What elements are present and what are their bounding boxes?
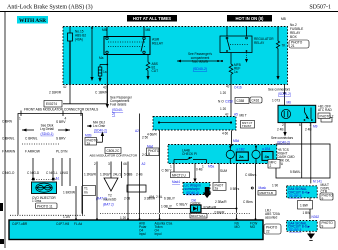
svg-text:Ma: Ma xyxy=(99,56,104,60)
svg-text:1 20: 1 20 xyxy=(220,107,226,111)
wire switch to note xyxy=(194,164,196,179)
svg-text:fuse details: fuse details xyxy=(192,60,209,64)
svg-text:RELAY: RELAY xyxy=(254,41,265,45)
svg-text:CHECK PI: CHECK PI xyxy=(182,152,197,156)
svg-text:Inpul: Inpul xyxy=(155,232,162,236)
circuit breaker No.15 xyxy=(68,30,87,42)
off-page fat arrow xyxy=(203,187,212,198)
outside-left wire labels xyxy=(2,120,16,176)
strip label box xyxy=(241,121,255,129)
svg-text:A2: A2 xyxy=(135,129,139,133)
resistor feed to modulator xyxy=(229,53,241,85)
svg-text:0 5Brs: 0 5Brs xyxy=(230,187,240,191)
svg-text:See connectors: See connectors xyxy=(271,136,294,140)
data link box label xyxy=(320,221,335,229)
svg-text:(40A): (40A) xyxy=(75,38,83,42)
svg-text:C416: C416 xyxy=(252,99,260,103)
band terminal labels xyxy=(12,222,257,237)
svg-text:MB: MB xyxy=(281,17,286,21)
pump motor relay coil xyxy=(281,109,290,118)
svg-text:M9: M9 xyxy=(313,125,318,129)
svg-text:4 6B/R: 4 6B/R xyxy=(147,133,157,137)
svg-text:SD507-1: SD507-1 xyxy=(309,5,331,11)
svg-text:1a: 1a xyxy=(234,70,238,74)
ASR relay xyxy=(104,37,164,55)
connector label box C416 xyxy=(250,97,262,103)
wire pin1 column to band xyxy=(94,114,146,221)
internal dotted wire xyxy=(22,143,60,145)
svg-text:C 6Bsrs: C 6Bsrs xyxy=(245,173,257,177)
modulator top pins xyxy=(19,111,81,121)
svg-text:4a: 4a xyxy=(265,154,270,159)
binder mark upper xyxy=(0,203,3,211)
svg-text:N O: N O xyxy=(218,100,224,104)
svg-text:assorted: assorted xyxy=(265,216,277,220)
WITH ASR label xyxy=(17,16,48,24)
cross ref note above strip xyxy=(110,96,133,117)
svg-text:C NIG-O: C NIG-O xyxy=(2,171,15,175)
solenoid band label xyxy=(182,149,197,157)
photo box center xyxy=(85,134,98,146)
svg-text:Lrc Orsir: Lrc Orsir xyxy=(93,124,106,128)
wire pin4 down xyxy=(121,166,123,178)
svg-text:HOT AT ALL TIMES: HOT AT ALL TIMES xyxy=(133,16,171,21)
svg-text:C BRN: C BRN xyxy=(2,120,13,124)
band entry pin dots xyxy=(75,218,256,220)
svg-text:1 90: 1 90 xyxy=(272,184,278,188)
svg-text:2 08: 2 08 xyxy=(124,197,130,201)
relay output label xyxy=(152,62,159,73)
data link circuit box xyxy=(287,221,318,233)
svg-text:1 2KB/T: 1 2KB/T xyxy=(100,173,112,177)
svg-text:4J: 4J xyxy=(103,86,107,90)
svg-text:E00274: E00274 xyxy=(46,102,57,106)
svg-text:PHOTO 2: PHOTO 2 xyxy=(320,114,334,118)
svg-text:2: 2 xyxy=(270,164,272,168)
wire pump motor relay pin6 down xyxy=(301,123,303,178)
connector note right xyxy=(251,186,276,195)
wire color labels row xyxy=(84,173,143,177)
label box left of wires xyxy=(213,183,226,191)
svg-text:C 1BR/R: C 1BR/R xyxy=(95,91,108,95)
svg-text:1 2/0: 1 2/0 xyxy=(63,215,70,219)
svg-text:A1: A1 xyxy=(56,177,60,181)
svg-text:(SD40-2): (SD40-2) xyxy=(94,129,107,133)
wire from ASR relay switch down xyxy=(147,55,149,63)
svg-text:MFATT2A-L: MFATT2A-L xyxy=(191,214,206,218)
svg-text:FRONT ABS MODULATOR CONNECTOR: FRONT ABS MODULATOR CONNECTOR DETAILS xyxy=(24,107,98,111)
svg-text:4J: 4J xyxy=(63,85,67,89)
svg-text:2: 2 xyxy=(94,162,96,166)
highlighted cross-ref note xyxy=(183,183,210,195)
wire to other page (arrow) xyxy=(271,123,294,145)
svg-text:C805-2C: C805-2C xyxy=(107,149,120,153)
interconnect wire with end arrows xyxy=(177,60,223,63)
wire pump motor relay pin3 down xyxy=(310,123,312,184)
svg-text:3: 3 xyxy=(108,162,110,166)
title rule xyxy=(0,11,338,13)
wire from fuse box to pump motor relay xyxy=(268,85,291,106)
svg-text:N362: N362 xyxy=(312,215,320,219)
svg-text:S BRV: S BRV xyxy=(56,137,66,141)
svg-text:2): 2) xyxy=(112,112,115,116)
svg-text:21: 21 xyxy=(291,44,295,48)
wire from ASR relay pin to 4J xyxy=(106,55,108,85)
wire solenoid A down to band xyxy=(220,164,240,221)
svg-text:C NIG-D: C NIG-D xyxy=(27,171,40,175)
modulator-control unit box xyxy=(10,114,250,216)
svg-text:Lrg Detail: Lrg Detail xyxy=(40,127,54,131)
svg-text:Mad4: Mad4 xyxy=(172,180,180,184)
solenoid coil A xyxy=(226,145,248,164)
svg-text:C358: C358 xyxy=(237,99,245,103)
svg-text:B: B xyxy=(148,152,150,156)
under-hood fuse/relay box xyxy=(63,27,288,85)
svg-text:9: 9 xyxy=(322,197,324,201)
page left border xyxy=(4,12,6,249)
internal cross-ref arrows xyxy=(22,124,70,136)
svg-text:A2: A2 xyxy=(142,162,146,166)
svg-text:C BRN/L: C BRN/L xyxy=(2,137,15,141)
svg-text:C NIG-L: C NIG-L xyxy=(46,171,58,175)
wire to label box xyxy=(218,164,220,183)
svg-text:C BRN/L: C BRN/L xyxy=(25,137,38,141)
svg-text:2a: 2a xyxy=(215,187,219,191)
svg-text:PHOTO 11: PHOTO 11 xyxy=(37,204,53,208)
connector label box E00274 xyxy=(44,101,62,108)
svg-text:2 1BR/R: 2 1BR/R xyxy=(49,91,62,95)
svg-text:1 BW: 1 BW xyxy=(303,211,311,215)
svg-text:MO: MO xyxy=(235,225,241,229)
wire from breaker to connector 4J xyxy=(69,41,71,85)
svg-text:C416: C416 xyxy=(234,86,242,90)
photo label near band xyxy=(147,144,160,156)
svg-text:Mad: Mad xyxy=(147,144,153,148)
wire pin6 down to band xyxy=(127,166,129,220)
indicator box label xyxy=(320,183,333,201)
svg-text:F ARW/N: F ARW/N xyxy=(2,150,16,154)
svg-text:Anti-Lock Brake System (ABS) (: Anti-Lock Brake System (ABS) (3) xyxy=(7,4,93,11)
svg-text:3 380/A: 3 380/A xyxy=(144,197,156,201)
inner loop box bottom center xyxy=(127,185,146,192)
svg-text:MFATT2-B: MFATT2-B xyxy=(260,191,273,195)
svg-text:0 4B: 0 4B xyxy=(196,167,203,171)
svg-text:C4P7-H8: C4P7-H8 xyxy=(56,222,69,226)
svg-text:2 4B: 2 4B xyxy=(136,173,143,177)
hot-at-all-times header 2 xyxy=(227,15,286,22)
wires to ground right of pump xyxy=(63,186,82,220)
svg-text:2: 2 xyxy=(282,123,284,127)
wire band left down with turn xyxy=(147,133,174,173)
svg-text:2 4B: 2 4B xyxy=(277,128,284,132)
svg-text:1a: 1a xyxy=(87,142,91,146)
ABS indicator circuit box xyxy=(287,186,318,198)
svg-text:See connectors: See connectors xyxy=(268,88,291,92)
svg-text:2 Bla/R: 2 Bla/R xyxy=(214,211,225,215)
solenoid band xyxy=(168,145,277,164)
svg-text:FL Ad: FL Ad xyxy=(74,222,82,226)
svg-text:a 1B4: a 1B4 xyxy=(262,147,271,151)
svg-text:M6: M6 xyxy=(287,101,292,105)
svg-text:MB: MB xyxy=(102,28,107,32)
svg-text:1 BIO/W: 1 BIO/W xyxy=(63,191,75,195)
svg-text:4J: 4J xyxy=(226,85,230,89)
solenoid relay xyxy=(220,27,252,63)
svg-text:MFCT2 U: MFCT2 U xyxy=(172,174,187,178)
svg-text:2a: 2a xyxy=(239,154,244,159)
svg-text:F ARROW: F ARROW xyxy=(25,150,40,154)
pump motor label xyxy=(32,196,57,209)
svg-text:1 073: 1 073 xyxy=(272,99,280,103)
svg-text:1 2KB/R: 1 2KB/R xyxy=(84,173,97,177)
svg-text:M6 T: M6 T xyxy=(240,114,247,118)
diode D1 xyxy=(191,199,217,213)
wire jog between indicator boxes xyxy=(298,198,320,219)
hot-at-all-times header 1 xyxy=(127,15,177,22)
svg-text:M2B: M2B xyxy=(85,134,92,138)
svg-text:BOX: BOX xyxy=(290,35,298,39)
svg-text:22: 22 xyxy=(266,230,270,234)
svg-text:M5a: M5a xyxy=(208,165,214,169)
svg-text:9: 9 xyxy=(322,224,324,228)
diode label box xyxy=(190,214,207,219)
solenoid coil C xyxy=(0,0,1,1)
regulator section label xyxy=(254,37,274,45)
svg-text:CUT: CUT xyxy=(152,69,159,73)
svg-text:MB: MB xyxy=(146,28,151,32)
MFC label box on band edge xyxy=(268,160,280,169)
svg-text:Inpul: Inpul xyxy=(139,232,146,236)
svg-text:RELAY: RELAY xyxy=(152,42,164,46)
fuse/relay box label xyxy=(289,23,309,48)
solenoid coil B xyxy=(252,145,273,164)
svg-text:C358: C358 xyxy=(225,100,233,104)
svg-text:ABS MODULATOR CONTRACTOR: ABS MODULATOR CONTRACTOR xyxy=(90,154,139,158)
pump motor xyxy=(32,177,60,194)
pump motor relay label xyxy=(313,104,334,128)
svg-text:Fuel details: Fuel details xyxy=(110,103,127,107)
svg-text:Im: Im xyxy=(84,191,88,195)
svg-text:1 Drss: 1 Drss xyxy=(32,199,42,203)
svg-text:(SD40-2): (SD40-2) xyxy=(278,92,291,96)
coil feed wire with resistor xyxy=(91,27,93,78)
svg-text:WITH ASR: WITH ASR xyxy=(19,18,46,24)
relay pin labels xyxy=(277,123,312,132)
branch resistor 1a xyxy=(98,64,108,82)
svg-text:4J: 4J xyxy=(225,113,229,117)
svg-text:A5: A5 xyxy=(234,113,238,117)
svg-text:SD BP-5: SD BP-5 xyxy=(289,194,302,198)
svg-text:1 08L/Y: 1 08L/Y xyxy=(161,205,173,209)
resistor 7K xyxy=(276,27,286,81)
svg-text:M5d: M5d xyxy=(233,139,239,143)
off-page arrow note center xyxy=(87,121,107,143)
svg-text:ImuneSD: ImuneSD xyxy=(103,198,117,202)
pressure switch xyxy=(170,157,207,169)
svg-text:C 98L/Y: C 98L/Y xyxy=(176,203,188,207)
ground G502 xyxy=(307,231,315,240)
svg-text:S BRV: S BRV xyxy=(56,120,66,124)
svg-text:1 20: 1 20 xyxy=(120,216,126,220)
wire through diode xyxy=(168,208,238,210)
internal wires to pump motor xyxy=(27,158,70,186)
svg-text:C Bhrs: C Bhrs xyxy=(243,200,253,204)
svg-text:1 BW: 1 BW xyxy=(300,204,308,208)
svg-text:MO: MO xyxy=(250,225,256,229)
svg-text:24L/1: 24L/1 xyxy=(113,173,121,177)
connector row pins xyxy=(97,162,128,167)
wire strip to solenoid band xyxy=(222,114,247,147)
noise suppressor triangle xyxy=(103,166,118,207)
bottom connector band xyxy=(9,220,263,240)
svg-text:1a: 1a xyxy=(103,70,107,74)
gauge feed junction box xyxy=(272,144,330,188)
svg-text:2 3Ba/R: 2 3Ba/R xyxy=(215,200,227,204)
middle connector strip xyxy=(153,117,236,131)
svg-text:SUM: SUM xyxy=(220,169,227,173)
pump motor relay contact xyxy=(304,108,306,113)
svg-text:L NIG: L NIG xyxy=(60,171,69,175)
svg-text:a 1B2: a 1B2 xyxy=(236,148,245,152)
svg-text:6: 6 xyxy=(125,162,127,166)
note labels above xyxy=(162,165,215,185)
svg-text:(SD40-1): (SD40-1) xyxy=(41,132,54,136)
battery feed wire xyxy=(69,27,71,34)
svg-text:DIODE: DIODE xyxy=(191,202,201,206)
svg-text:5 BW/L: 5 BW/L xyxy=(290,170,301,174)
svg-text:1 20: 1 20 xyxy=(220,91,226,95)
connector label box C805 xyxy=(105,148,121,154)
connector 4J labels under fuse box xyxy=(49,85,249,117)
svg-text:PL DYN: PL DYN xyxy=(56,150,68,154)
pump motor relay box xyxy=(278,105,316,122)
wire strip down left xyxy=(142,131,163,221)
svg-text:Mask: Mask xyxy=(259,186,267,190)
svg-text:C4P7-uBR: C4P7-uBR xyxy=(12,222,28,226)
ASR relay coil feed wires xyxy=(106,27,108,37)
svg-text:SD BP-5: SD BP-5 xyxy=(289,228,302,232)
svg-text:(BAT 2): (BAT 2) xyxy=(103,203,114,207)
ground ref box xyxy=(83,186,107,201)
center feed wires below fuse box xyxy=(63,85,109,109)
bottom wire labels xyxy=(120,197,227,220)
cross reference note (see passenger compartment fuse) xyxy=(188,52,212,71)
wire solenoid B down to band xyxy=(243,164,257,221)
svg-text:1: 1 xyxy=(19,117,21,121)
svg-text:4 60: 4 60 xyxy=(222,132,228,136)
binder mark lower xyxy=(0,239,4,244)
svg-text:(SD40-4): (SD40-4) xyxy=(186,191,199,195)
svg-text:6 38L/Y: 6 38L/Y xyxy=(164,197,176,201)
fuse label right of band xyxy=(264,209,281,235)
wire pin2 down to band xyxy=(96,166,98,220)
svg-text:(SD40-2): (SD40-2) xyxy=(193,67,207,71)
svg-text:6: 6 xyxy=(299,123,301,127)
svg-text:TRUST: TRUST xyxy=(242,124,252,128)
svg-text:ATC RAD: ATC RAD xyxy=(318,108,332,112)
internal wire labels xyxy=(25,120,68,154)
svg-text:HOT IN ON (II): HOT IN ON (II) xyxy=(236,16,265,21)
